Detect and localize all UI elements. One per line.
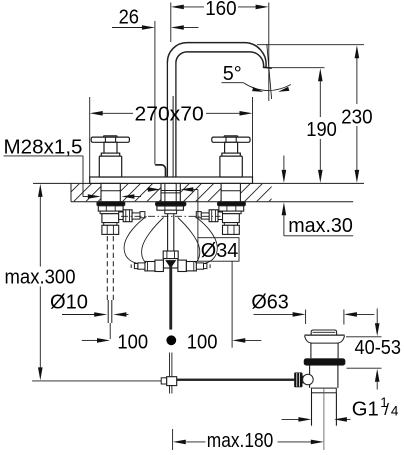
left handle handle stem xyxy=(104,142,117,153)
svg-text:190: 190 xyxy=(306,119,337,141)
rod clamp block xyxy=(167,377,177,386)
middle shank tube adapter xyxy=(165,210,177,214)
right valve valve body below deck xyxy=(223,214,240,223)
extension line left plate end xyxy=(89,97,91,177)
spout outlet end face xyxy=(263,66,272,69)
dim max.30 arrows at deck xyxy=(283,156,285,171)
dim Ø34 arrows at middle shank xyxy=(147,189,148,191)
dim 190 extension line from outlet xyxy=(272,67,325,69)
right valve mounting nut xyxy=(219,206,244,211)
right valve axis extension line xyxy=(231,261,233,348)
horizontal reference line to max.300 xyxy=(32,380,161,382)
tee right end cap xyxy=(204,264,207,269)
extension line right plate end xyxy=(252,97,254,177)
dim 160 extension line at spout axis xyxy=(170,3,172,43)
dim 190 line and arrows xyxy=(319,80,321,117)
waste flange sides xyxy=(305,336,311,359)
tee body xyxy=(163,259,178,268)
left supply pipe hidden dashed lines Ø10 xyxy=(106,236,108,300)
dim 5deg leader arc and arrows xyxy=(244,83,292,91)
left valve mounting nut xyxy=(98,206,123,211)
pop-up rod below clamp xyxy=(169,386,171,394)
svg-text:40-53: 40-53 xyxy=(355,337,402,359)
rod clamp screw xyxy=(161,378,167,384)
svg-text:/: / xyxy=(384,400,389,419)
left handle handle base ring xyxy=(101,153,119,156)
label Ø34 leader xyxy=(197,190,199,238)
waste seal ring (black) xyxy=(304,358,346,365)
tee left coupler xyxy=(145,262,155,271)
waste flange top rim xyxy=(304,334,344,336)
spout side inlet elbow xyxy=(155,165,165,177)
tee drain cone (black V) xyxy=(165,260,176,268)
svg-text:Ø34: Ø34 xyxy=(201,240,239,262)
dim Ø63 line and arrows xyxy=(254,313,293,315)
deck left edge xyxy=(70,183,72,201)
svg-text:max.300: max.300 xyxy=(5,266,76,288)
right valve shank through deck xyxy=(221,183,240,201)
middle spout shank through deck xyxy=(161,183,180,201)
dim Ø10 line and arrows xyxy=(62,314,94,316)
right handle valve body above deck xyxy=(220,156,242,177)
waste body below seal xyxy=(309,366,311,388)
middle shank seal washer (black) xyxy=(156,202,186,206)
base plate (escutcheon) 270x70 xyxy=(90,177,253,183)
dim max.180 line and arrows xyxy=(186,441,205,443)
label Ø34 box xyxy=(198,238,239,262)
pivot ball (black dot) xyxy=(166,335,176,345)
dim 270x70 line and arrows xyxy=(103,112,134,114)
dim max.180 extension line xyxy=(172,429,174,450)
right valve seal washer (black) xyxy=(218,202,246,206)
tee left union xyxy=(155,260,164,271)
left valve outlet pipe xyxy=(132,213,140,219)
dim max.300 line and arrows xyxy=(39,196,41,266)
tee right union xyxy=(178,260,187,271)
svg-text:26: 26 xyxy=(119,7,139,29)
svg-text:max.30: max.30 xyxy=(288,215,353,237)
left valve shank through deck xyxy=(101,183,120,201)
waste plug disc xyxy=(311,330,336,335)
rod knob (knurled) xyxy=(294,373,302,388)
dim 26 extension line xyxy=(154,21,156,165)
middle shank mounting nut xyxy=(157,206,184,210)
label M28x1,5 leader xyxy=(82,156,84,197)
right valve outlet neck xyxy=(218,212,223,220)
left valve bottom nut xyxy=(102,225,119,234)
right valve spacer xyxy=(221,211,241,214)
waste body bottom ring xyxy=(312,388,337,393)
right handle handle stem xyxy=(225,142,238,153)
svg-text:G1: G1 xyxy=(352,399,379,421)
right handle handle base ring xyxy=(222,153,240,156)
dim max.30 text with underline xyxy=(284,235,353,237)
5 degree tilted outlet axis line xyxy=(267,44,272,99)
pop-up drain rod upper (thick) xyxy=(169,266,172,330)
waste tailpipe xyxy=(311,393,313,426)
right valve outlet pipe xyxy=(201,213,209,219)
rod ball joint xyxy=(302,376,309,383)
right handle cross handle bar xyxy=(212,137,250,142)
dim M28 arrows at left shank xyxy=(83,196,88,198)
left valve outlet nipple end xyxy=(140,212,145,218)
left handle valve body above deck xyxy=(99,156,121,177)
svg-text:100: 100 xyxy=(187,331,218,353)
mounting deck top surface line xyxy=(33,182,364,184)
svg-text:100: 100 xyxy=(117,331,148,353)
dim Ø63 extension lines xyxy=(305,310,307,325)
right valve lower spacer xyxy=(224,223,237,226)
label G1 1/4 leader arrows at tailpipe xyxy=(347,418,351,420)
left valve valve body below deck xyxy=(102,214,119,223)
tee left nipple xyxy=(138,263,145,269)
flexible hose loop left xyxy=(124,217,146,264)
left valve spacer xyxy=(100,211,120,214)
spout curved tube outline xyxy=(167,43,266,68)
horizontal actuating rod to waste xyxy=(177,379,295,381)
dim 100 right arrow xyxy=(245,339,261,341)
svg-text:max.180: max.180 xyxy=(207,430,273,450)
right handle handle hub xyxy=(224,135,238,137)
left valve seal washer (black) xyxy=(97,202,125,206)
tee right coupler xyxy=(186,262,196,271)
flexible hose loop right xyxy=(195,217,217,264)
dim 100 left arrow xyxy=(82,339,97,341)
tee left end cap xyxy=(134,264,137,269)
dim 230 line and arrows xyxy=(356,57,358,104)
spout supply tube below deck xyxy=(167,214,169,251)
left handle cross handle bar xyxy=(91,137,129,142)
dim 230 extension line from spout top xyxy=(257,44,364,46)
dim 26 line and arrows xyxy=(112,27,142,29)
left supply pipe solid lower part xyxy=(107,300,109,323)
tee right nipple xyxy=(196,263,203,269)
right valve bottom nut xyxy=(223,225,240,234)
svg-text:5°: 5° xyxy=(223,63,242,85)
svg-text:Ø63: Ø63 xyxy=(251,292,288,314)
waste centerline xyxy=(323,388,325,450)
svg-text:M28x1,5: M28x1,5 xyxy=(4,137,83,159)
left valve lower spacer xyxy=(104,223,117,226)
tee top union nut xyxy=(163,251,178,259)
svg-text:4: 4 xyxy=(391,404,399,419)
dim 160 extension line at outlet xyxy=(268,3,270,102)
dim 40-53 extension lines xyxy=(346,336,382,338)
right valve outlet nipple end xyxy=(196,212,201,218)
spout riser tube xyxy=(166,63,168,178)
svg-text:160: 160 xyxy=(205,0,236,20)
left handle handle hub xyxy=(104,135,118,137)
svg-text:270x70: 270x70 xyxy=(135,104,204,126)
svg-text:Ø10: Ø10 xyxy=(50,292,88,314)
left valve outlet union nut xyxy=(123,210,132,222)
right valve outlet union nut xyxy=(209,210,218,222)
mounting deck bottom line xyxy=(71,201,353,203)
svg-text:230: 230 xyxy=(341,107,373,129)
pop-up rod below ball xyxy=(169,353,171,378)
connection centerline dash-dot xyxy=(121,215,221,217)
dim 40-53 line and arrows xyxy=(376,309,378,325)
dim 160 line and arrows xyxy=(184,6,204,8)
left valve outlet neck xyxy=(119,212,124,220)
